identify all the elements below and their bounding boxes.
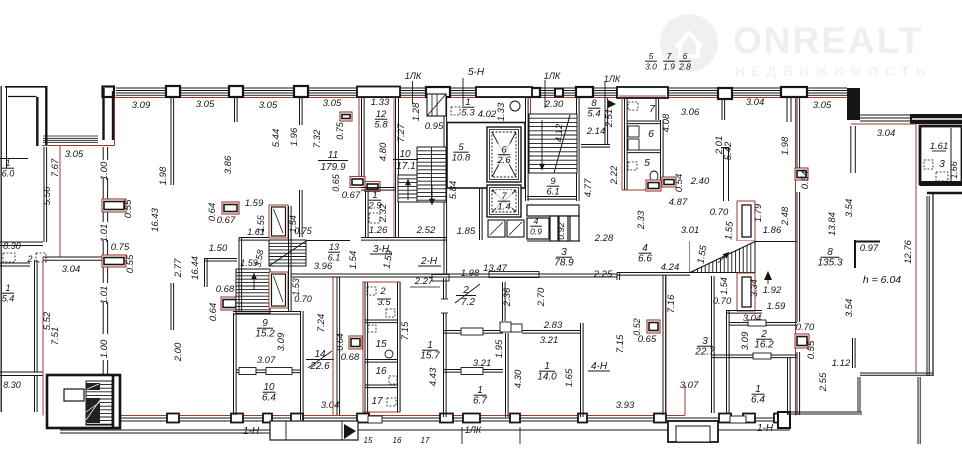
red left boundary (59, 146, 61, 258)
stair C flight1 (269, 240, 306, 266)
left room label 1/6.0 (2, 158, 15, 179)
svg-text:1.33: 1.33 (371, 97, 390, 108)
wall room9 top (233, 311, 301, 313)
svg-text:6: 6 (683, 51, 688, 61)
bottom pillar b5 (357, 414, 369, 423)
svg-text:2.55: 2.55 (818, 372, 829, 392)
stair SW closet (64, 389, 84, 401)
svg-text:0.68: 0.68 (216, 284, 235, 295)
svg-text:3.04: 3.04 (746, 97, 765, 108)
svg-text:7.16: 7.16 (666, 294, 677, 313)
svg-text:3.54: 3.54 (844, 199, 855, 218)
svg-text:3.21: 3.21 (540, 335, 559, 346)
svg-text:0.54: 0.54 (800, 171, 811, 190)
door D4 0.68 (221, 297, 238, 310)
stub wall s5 (204, 258, 206, 287)
stair C right wall (288, 206, 290, 311)
stair D labels (328, 242, 341, 263)
svg-text:6: 6 (501, 145, 507, 156)
stairwell right wall (443, 98, 445, 278)
wall y322 (729, 322, 797, 324)
washing icon 3 (369, 213, 380, 223)
label 1/2.9 (367, 190, 382, 212)
svg-text:15: 15 (375, 339, 387, 350)
SE wall b (917, 377, 919, 444)
svg-text:5-Н: 5-Н (468, 67, 485, 78)
svg-text:13: 13 (329, 242, 339, 252)
wall stub x724 (723, 147, 725, 201)
wall x663 (662, 275, 664, 415)
stair SW frame (47, 375, 120, 428)
svg-text:2.22: 2.22 (609, 165, 620, 185)
beam B2 (476, 87, 532, 97)
svg-text:1.98: 1.98 (158, 166, 169, 185)
room label 14/22.6 (306, 349, 334, 372)
svg-text:22.7: 22.7 (694, 347, 715, 358)
svg-text:4.12: 4.12 (554, 123, 565, 142)
elevator 2 (487, 185, 521, 217)
stub wall right a (721, 99, 723, 120)
svg-text:1.50: 1.50 (209, 243, 228, 254)
door D7 0.70 (795, 334, 809, 348)
bottom pillar b11 (719, 414, 731, 423)
right wing wall (910, 114, 962, 124)
svg-text:5: 5 (644, 157, 650, 169)
svg-text:2.40: 2.40 (690, 176, 710, 187)
svg-text:8: 8 (591, 98, 597, 109)
svg-text:1-Н: 1-Н (243, 426, 260, 437)
stamp 7/1.9 (663, 51, 675, 72)
bottom pillar b4 (291, 414, 303, 423)
door cell 2 (507, 220, 524, 237)
svg-text:НЕДВИЖИМОСТЬ: НЕДВИЖИМОСТЬ (735, 64, 932, 79)
svg-text:0.95: 0.95 (425, 121, 444, 132)
porch stub walls (461, 427, 463, 444)
svg-text:16: 16 (393, 436, 402, 444)
svg-text:5.56: 5.56 (42, 186, 53, 205)
stub wall s1 (170, 98, 172, 185)
quarter stair top (427, 94, 446, 116)
stub wall s4 (170, 283, 172, 330)
tambour wall (479, 188, 481, 240)
svg-text:17.1: 17.1 (396, 161, 415, 172)
svg-text:3.34: 3.34 (749, 279, 759, 297)
pillar small mid (555, 89, 563, 97)
svg-text:1.01: 1.01 (99, 286, 110, 305)
svg-text:0.65: 0.65 (331, 173, 341, 192)
stair R diagonal (554, 115, 570, 173)
svg-text:6.0: 6.0 (2, 169, 15, 179)
door D6 0.52 (647, 320, 660, 333)
left step inner wall (103, 87, 115, 98)
svg-text:1.92: 1.92 (763, 285, 782, 296)
label 1/5.3 (461, 97, 475, 119)
stamp 5/3.0 (645, 51, 657, 72)
stair SW dark2 (86, 398, 100, 423)
door DB (737, 273, 755, 311)
wall y369a (443, 369, 503, 371)
label 4/0.9 (530, 216, 542, 237)
svg-text:1.79: 1.79 (753, 203, 764, 222)
wall y311 (726, 310, 762, 312)
svg-text:3.09: 3.09 (276, 332, 287, 351)
svg-text:1.59: 1.59 (245, 198, 264, 209)
svg-text:0.70: 0.70 (713, 296, 732, 307)
svg-text:0.70: 0.70 (710, 207, 729, 218)
svg-text:3.04: 3.04 (321, 400, 340, 411)
svg-text:4.02: 4.02 (478, 109, 497, 120)
svg-text:3.93: 3.93 (616, 400, 635, 411)
svg-text:2: 2 (760, 329, 767, 340)
svg-text:135.3: 135.3 (817, 258, 842, 269)
wall x711 (711, 276, 713, 413)
svg-text:6.6: 6.6 (638, 254, 652, 265)
svg-text:1: 1 (465, 97, 470, 108)
svg-text:13.84: 13.84 (827, 212, 838, 236)
svg-text:5.4: 5.4 (2, 294, 15, 304)
bottom end corner (778, 412, 790, 428)
stair C door B (269, 272, 288, 308)
stub wall right b (786, 98, 788, 122)
svg-text:2.83: 2.83 (543, 320, 563, 331)
room label 10/17.1 (393, 149, 418, 172)
door D5 0.65 (350, 177, 365, 188)
SE wall d (857, 377, 859, 412)
svg-text:5.8: 5.8 (374, 120, 388, 131)
svg-text:1.65: 1.65 (564, 368, 575, 387)
bottom pillar b7 (463, 414, 480, 423)
pillar P2 (229, 86, 243, 97)
svg-text:179.9: 179.9 (320, 162, 345, 173)
left window a (0, 241, 43, 243)
label 0.97 bracket (854, 240, 856, 268)
wall x505 (502, 282, 504, 321)
door D3 0.64 (222, 202, 239, 214)
svg-text:1.61: 1.61 (930, 141, 949, 152)
left corridor wall (43, 256, 102, 258)
stair R flight (529, 114, 577, 173)
svg-text:0.54: 0.54 (674, 174, 685, 193)
svg-text:14.0: 14.0 (537, 372, 557, 383)
svg-text:1.66: 1.66 (949, 161, 959, 179)
left window c (0, 371, 43, 373)
door D8 0.54 (795, 168, 808, 180)
axis tick 1LK c (604, 82, 606, 110)
svg-text:1.28: 1.28 (411, 102, 422, 121)
bottom pillar b10 (654, 414, 666, 423)
svg-text:12: 12 (376, 109, 387, 120)
entrance porch right (668, 421, 718, 442)
left room line a (0, 158, 28, 160)
svg-text:3.09: 3.09 (132, 100, 151, 111)
svg-text:1-Н: 1-Н (757, 423, 774, 434)
svg-text:3.01: 3.01 (681, 225, 700, 236)
svg-text:1.54: 1.54 (719, 277, 729, 295)
svg-text:7.15: 7.15 (400, 321, 411, 340)
room 3/78.9 (554, 247, 574, 269)
svg-text:3.86: 3.86 (223, 155, 234, 174)
bottom pillar b12 (743, 414, 755, 423)
top wall red boundary (115, 97, 852, 99)
wall room9 right (300, 311, 302, 420)
svg-text:1.96: 1.96 (289, 127, 300, 146)
svg-text:4.77: 4.77 (583, 178, 594, 197)
stair R walls (525, 98, 527, 201)
red x333 (332, 277, 334, 415)
door cell 1 (488, 220, 505, 237)
stair C flight2 (236, 269, 270, 314)
left step wall top (5, 86, 48, 88)
left wall seg (43, 147, 45, 242)
svg-text:2.9: 2.9 (367, 201, 382, 212)
svg-text:2-Н: 2-Н (420, 256, 438, 267)
svg-text:3.05: 3.05 (65, 149, 84, 160)
svg-text:1.95: 1.95 (494, 339, 505, 358)
svg-text:0.70: 0.70 (796, 322, 815, 333)
room 12 red border (358, 98, 360, 178)
room 1/2.9 top wall (361, 187, 396, 189)
svg-text:2.48: 2.48 (780, 206, 791, 226)
room 3/22.7 (694, 336, 715, 358)
svg-text:2.36: 2.36 (502, 287, 513, 307)
svg-text:1.01: 1.01 (99, 224, 110, 243)
svg-text:4.87: 4.87 (669, 197, 688, 208)
stair main flightR (417, 147, 446, 202)
room label 9/6.1 (546, 176, 559, 198)
svg-text:0.75: 0.75 (294, 226, 313, 236)
svg-text:h = 6.04: h = 6.04 (863, 274, 901, 286)
svg-text:0.70: 0.70 (294, 294, 312, 304)
bath7 icon (628, 102, 638, 110)
svg-text:1.98: 1.98 (461, 268, 480, 279)
right wing window (860, 114, 910, 116)
room 8 walls (604, 98, 606, 144)
svg-text:0.65: 0.65 (638, 334, 657, 345)
svg-text:16.2: 16.2 (754, 340, 774, 351)
pillar P4 (426, 87, 450, 97)
red x666 (665, 275, 667, 415)
svg-text:9: 9 (262, 318, 268, 329)
svg-text:3.05: 3.05 (259, 100, 278, 111)
wall x444 bottom (443, 278, 445, 417)
svg-text:8.30: 8.30 (3, 241, 21, 251)
svg-text:1.26: 1.26 (369, 225, 388, 236)
svg-text:0.97: 0.97 (860, 243, 879, 254)
svg-text:2.30: 2.30 (544, 99, 564, 110)
stub x852 (852, 338, 854, 368)
stair SW flight (86, 381, 112, 425)
svg-text:1.00: 1.00 (99, 161, 110, 180)
svg-text:3.05: 3.05 (813, 100, 832, 111)
stairwell left wall (395, 98, 397, 238)
door D1 0.55 (102, 199, 126, 212)
bottom pillar b13 (774, 414, 786, 423)
svg-text:1.33: 1.33 (496, 102, 507, 121)
bath block walls (624, 98, 626, 190)
svg-text:17: 17 (371, 396, 383, 407)
closet shelf (527, 205, 579, 216)
svg-text:10.8: 10.8 (452, 153, 471, 164)
svg-text:8: 8 (827, 247, 833, 258)
svg-text:1: 1 (544, 361, 550, 372)
svg-text:1ЛК: 1ЛК (405, 71, 422, 81)
svg-text:3: 3 (939, 159, 945, 170)
svg-text:6.1: 6.1 (546, 187, 559, 198)
wall x337 (336, 277, 338, 415)
svg-text:1: 1 (372, 190, 377, 201)
svg-text:2.27: 2.27 (414, 276, 434, 287)
room 12 wall (361, 98, 363, 176)
bath3 box (920, 126, 962, 184)
stair main flightL (398, 175, 417, 202)
svg-text:3.04: 3.04 (877, 128, 896, 139)
svg-text:7: 7 (667, 51, 672, 61)
svg-text:3: 3 (561, 247, 567, 258)
corridor wall y278 (291, 273, 617, 275)
label 8/5.4 (587, 98, 600, 120)
room 1/14.0 (537, 361, 557, 383)
svg-text:5.84: 5.84 (448, 181, 459, 200)
wall x301 upper (299, 190, 301, 237)
bath5 icon (628, 162, 637, 170)
bath block2 walls (364, 282, 366, 412)
wall y330r (522, 330, 581, 332)
svg-text:7.27: 7.27 (396, 123, 407, 142)
door DA (737, 201, 755, 241)
svg-text:1: 1 (5, 158, 10, 168)
stair SW dark1 (86, 383, 100, 390)
svg-text:1.9: 1.9 (663, 62, 675, 72)
svg-text:1: 1 (427, 340, 433, 351)
svg-text:1.85: 1.85 (457, 226, 476, 237)
wing wall below bath (920, 181, 962, 186)
svg-text:16.44: 16.44 (190, 256, 201, 280)
svg-text:7.15: 7.15 (615, 334, 626, 353)
pillar P6 (576, 87, 593, 97)
door D2 0.75 (102, 255, 126, 267)
left inner wall (102, 147, 104, 160)
svg-text:0.64: 0.64 (208, 303, 219, 322)
svg-text:5.44: 5.44 (271, 129, 282, 148)
svg-text:0.75: 0.75 (111, 242, 130, 253)
svg-text:22.6: 22.6 (309, 361, 330, 372)
room 1/6.7 (473, 385, 487, 407)
svg-text:3.96: 3.96 (314, 261, 333, 272)
svg-text:3.54: 3.54 (844, 299, 855, 318)
svg-text:2.33: 2.33 (636, 210, 647, 230)
bottom pillar b6 (440, 414, 453, 423)
door D9 0.64 (349, 336, 362, 349)
wall room9 bottom (236, 369, 301, 371)
svg-text:4-Н: 4-Н (591, 361, 608, 372)
svg-text:7.67: 7.67 (50, 158, 61, 177)
svg-text:15.2: 15.2 (255, 329, 275, 340)
SE wall c (788, 411, 862, 413)
stair C wall y238 (239, 237, 269, 239)
svg-text:1.86: 1.86 (763, 225, 782, 236)
svg-text:2.70: 2.70 (536, 287, 547, 307)
entrance arrow (344, 424, 356, 439)
wing L wall (927, 192, 962, 195)
stair C left wall (238, 238, 240, 312)
opening x444 (440, 299, 448, 313)
svg-text:16.43: 16.43 (150, 207, 161, 231)
svg-text:2.51: 2.51 (604, 109, 615, 129)
svg-text:6: 6 (648, 128, 654, 140)
svg-text:0.55: 0.55 (806, 340, 817, 359)
svg-text:1.59: 1.59 (767, 301, 786, 312)
washing icon (451, 107, 460, 115)
bottom pillar b2 (231, 414, 243, 423)
svg-text:5.52: 5.52 (42, 311, 53, 330)
bottom pillar b1 (167, 414, 179, 423)
pillar P5 (530, 88, 540, 97)
opening ticks (748, 320, 766, 326)
beam B3 (617, 87, 668, 98)
svg-text:3.21: 3.21 (473, 358, 492, 369)
stairwell bottom wall (361, 237, 447, 239)
right wall main (932, 192, 934, 376)
red wall x797 (795, 98, 797, 416)
svg-text:1ЛК: 1ЛК (465, 425, 482, 435)
entrance porch left (270, 421, 358, 440)
wall y330a (443, 330, 503, 332)
wall x581 (580, 323, 582, 417)
svg-text:2: 2 (379, 286, 386, 297)
elevator hall box (447, 123, 525, 189)
beam B1 (357, 87, 400, 98)
svg-text:1.54: 1.54 (348, 251, 359, 270)
stair C door A (269, 205, 288, 238)
axis tick 1LK b (544, 80, 546, 108)
svg-text:2.77: 2.77 (173, 258, 184, 278)
wall x797 (796, 98, 798, 168)
closet row (527, 218, 549, 239)
svg-text:3.09: 3.09 (740, 331, 751, 350)
svg-text:2.8: 2.8 (678, 62, 691, 72)
svg-text:0.92: 0.92 (556, 222, 566, 240)
svg-text:8.30: 8.30 (3, 380, 21, 390)
room 1/6.4 r (751, 384, 765, 406)
bottom wall lines (105, 417, 790, 419)
svg-text:2.52: 2.52 (416, 225, 436, 236)
svg-text:15: 15 (364, 436, 373, 444)
stair E (690, 242, 755, 273)
svg-text:1: 1 (5, 283, 10, 293)
room 8/135.3 (817, 247, 842, 269)
pillar P1 (166, 86, 180, 97)
svg-text:4: 4 (534, 216, 539, 226)
svg-text:1.61: 1.61 (247, 227, 265, 237)
svg-text:13.47: 13.47 (483, 263, 507, 274)
svg-text:1: 1 (477, 385, 483, 396)
svg-text:4.30: 4.30 (513, 369, 524, 388)
left edge wall (0, 86, 2, 412)
svg-text:3: 3 (702, 336, 708, 347)
svg-text:3.0: 3.0 (645, 62, 657, 72)
svg-text:0.67: 0.67 (342, 190, 361, 201)
stamp 6/2.8 (678, 51, 691, 72)
stub below corner pillar (850, 126, 852, 173)
elevator 1 (487, 127, 521, 182)
svg-text:0.9: 0.9 (530, 227, 542, 237)
svg-text:5.4: 5.4 (587, 109, 600, 120)
stair E arrow (764, 271, 772, 280)
axis tick 5-H (462, 78, 464, 106)
stair E top line (690, 241, 797, 243)
room label 11/179.9 (318, 150, 348, 173)
wall x787 room1 (787, 357, 789, 415)
